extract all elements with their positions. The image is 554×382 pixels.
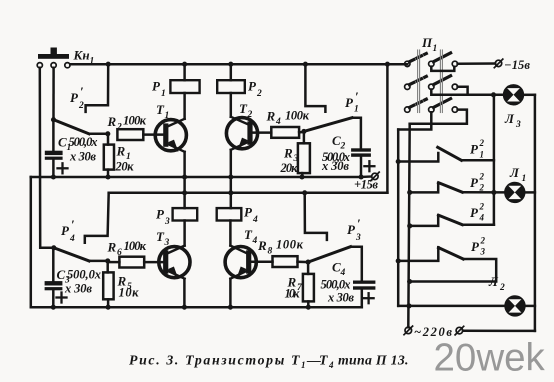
wire row1 elbow (431, 67, 454, 71)
wire right contact rail (493, 95, 496, 225)
wire from button terminal 1 down to P4' blade (40, 68, 54, 248)
label R6 (107, 239, 147, 258)
svg-text:500,0х: 500,0х (67, 268, 101, 282)
svg-text:Р: Р (471, 239, 480, 254)
resistor R5 (103, 272, 113, 299)
svg-text:8: 8 (268, 247, 273, 257)
svg-text:2: 2 (256, 89, 262, 99)
resistor R6 (119, 257, 144, 268)
lamp L2 (505, 296, 524, 315)
svg-text:х 30в: х 30в (327, 291, 354, 305)
node R4 R3 junction (301, 129, 306, 134)
svg-text:4: 4 (252, 236, 258, 246)
label P4 (244, 205, 258, 226)
resistor R7 (303, 274, 314, 302)
label P3' (347, 216, 361, 243)
svg-text:500,0х: 500,0х (321, 278, 351, 292)
label -15v (504, 58, 530, 72)
svg-text:х 30в: х 30в (69, 150, 96, 164)
svg-text:20к: 20к (115, 160, 135, 174)
label P3^2 (471, 236, 486, 257)
contact P3^2 (398, 247, 496, 281)
svg-text:Л: Л (509, 165, 520, 180)
wire V1 vertical (397, 130, 400, 306)
contact P3' fixed arm (305, 193, 327, 240)
switch P1 (selector) (405, 50, 458, 113)
svg-text:′: ′ (80, 84, 84, 99)
svg-text:100к: 100к (124, 239, 147, 253)
wire blade to base node (89, 260, 108, 263)
svg-text:R: R (257, 238, 267, 253)
svg-text:4: 4 (252, 215, 258, 225)
svg-text:1: 1 (301, 360, 306, 370)
wire left edge vertical (30, 177, 33, 307)
node base divider T1 (105, 131, 110, 136)
svg-text:100к: 100к (123, 114, 147, 128)
wire right rail vertical (534, 95, 537, 331)
contact P4' blade (54, 248, 89, 261)
svg-text:′: ′ (357, 216, 361, 231)
label T4 (244, 227, 258, 246)
svg-text:2: 2 (247, 110, 253, 120)
wire blade to C2 (352, 118, 361, 149)
terminal 220v right (456, 327, 463, 334)
label R8 (257, 238, 304, 257)
label P1 switch (421, 35, 437, 54)
svg-text:500,0х: 500,0х (69, 135, 98, 149)
contact P4' fixed arm (85, 193, 109, 243)
wire row2 elbow right (458, 87, 468, 95)
svg-text:Р: Р (248, 79, 257, 94)
svg-text:1: 1 (433, 44, 438, 54)
svg-text:20к: 20к (280, 161, 299, 175)
wire T2 base to R4 (252, 131, 271, 134)
terminal 220v left (405, 327, 412, 334)
transistor T1 (155, 119, 186, 152)
svg-text:Р: Р (156, 207, 165, 222)
svg-text:Р: Р (470, 175, 479, 190)
capacitor C2 (351, 148, 371, 156)
wire row2 elbow left (431, 90, 467, 95)
label T2 (239, 101, 253, 120)
contact P1^2 (398, 147, 494, 161)
capacitor C4 (353, 281, 375, 290)
svg-text:R: R (116, 144, 126, 159)
svg-text:100к: 100к (285, 109, 310, 123)
label ~220v (414, 325, 452, 339)
svg-text:′: ′ (71, 217, 75, 232)
label C4 plus (364, 293, 374, 303)
relay coil P3 (173, 208, 198, 220)
svg-text:3: 3 (355, 233, 361, 243)
terminal -15v (495, 60, 501, 66)
node R8 R7 junction (306, 260, 311, 265)
label P4' (61, 217, 75, 244)
label L1 (509, 165, 526, 184)
resistor R4 (271, 127, 299, 138)
node P4' blade pivot (51, 245, 56, 250)
row 3 contacts (405, 107, 410, 112)
svg-text:Р: Р (61, 223, 70, 238)
label +15v (354, 178, 378, 192)
svg-text:1: 1 (522, 174, 527, 184)
svg-text:10к: 10к (119, 286, 140, 300)
svg-text:2: 2 (479, 172, 485, 182)
contact P3' blade (308, 247, 350, 262)
node top rail junctions (106, 62, 390, 67)
svg-text:+15в: +15в (354, 178, 378, 192)
svg-text:Р: Р (345, 95, 354, 110)
wire from button terminal 2 down (52, 68, 55, 120)
label L3 (504, 111, 521, 130)
wire 220v bottom (463, 329, 535, 332)
svg-text:Р: Р (70, 90, 79, 105)
svg-text:—Т: —Т (306, 353, 328, 368)
svg-text:Р: Р (152, 79, 161, 94)
svg-text:−15в: −15в (504, 58, 530, 72)
resistor R1 (104, 145, 114, 170)
contact P2' fixed arm (86, 64, 109, 112)
svg-text:R: R (266, 109, 276, 124)
svg-text:1: 1 (354, 105, 359, 115)
relay coil P4 (217, 208, 242, 220)
label P1 (152, 79, 166, 100)
svg-text:2: 2 (499, 283, 505, 293)
transistor T3 (159, 246, 190, 280)
svg-text:2: 2 (479, 183, 485, 193)
label T3 (156, 229, 170, 248)
lamp L3 (504, 85, 523, 104)
svg-text:типа П 13.: типа П 13. (338, 353, 409, 368)
svg-text:3: 3 (164, 238, 170, 248)
svg-text:Р: Р (244, 205, 253, 220)
svg-text:2: 2 (116, 123, 122, 133)
svg-text:2: 2 (78, 101, 84, 111)
svg-text:3: 3 (515, 120, 521, 130)
svg-text:100к: 100к (276, 238, 304, 252)
row 1 contacts (405, 61, 410, 66)
terminal +15v (361, 175, 371, 178)
wire top rail to lower rail at right (386, 64, 389, 193)
svg-text:6: 6 (117, 248, 122, 258)
wire middle rail lower (109, 192, 388, 195)
label P1^2 (470, 138, 485, 160)
svg-text:Р: Р (470, 205, 479, 220)
svg-text:2: 2 (480, 236, 486, 246)
node V2 junctions (406, 190, 412, 309)
svg-text:′: ′ (355, 89, 359, 104)
wire bottom rail (31, 306, 362, 309)
node L3 junction (491, 92, 496, 97)
svg-text:4: 4 (479, 213, 485, 223)
transistor T2 (226, 117, 257, 150)
wire middle rail upper (31, 176, 361, 179)
svg-text:1: 1 (161, 89, 166, 99)
svg-text:R: R (107, 114, 117, 129)
row 2 contacts (405, 84, 410, 89)
label C4 value (321, 260, 355, 305)
contact P4^2 (410, 215, 494, 226)
svg-text:2: 2 (479, 202, 485, 212)
label C3 plus (57, 293, 67, 303)
label T1 (156, 102, 169, 121)
wire lamp L2 to right rail (524, 305, 535, 308)
linkage bars (418, 50, 443, 113)
svg-text:R: R (107, 240, 117, 255)
wire blade to C4 (351, 247, 362, 281)
label Kn1 (73, 48, 95, 67)
label P1' (345, 89, 359, 115)
label P2^2 (470, 172, 485, 193)
relay coil P1 (170, 80, 199, 93)
label P2' (70, 84, 84, 111)
svg-text:4: 4 (328, 360, 334, 370)
caption (129, 353, 409, 371)
label P2 (248, 79, 262, 100)
label P3 (156, 207, 170, 228)
wire row3 middle down and left (398, 112, 431, 129)
label C1 value (58, 135, 98, 164)
wire lamp L2 feed (398, 305, 505, 308)
wire top rail (70, 63, 407, 66)
svg-text:4: 4 (69, 234, 75, 244)
wire V2 vertical (408, 124, 409, 327)
contact P1' fixed arm (305, 64, 325, 112)
label R7 (285, 275, 304, 301)
svg-text:3: 3 (164, 217, 170, 227)
svg-text:П: П (421, 35, 433, 50)
label C3 value (57, 267, 102, 296)
label P4^2 (470, 202, 485, 223)
resistor R2 (117, 129, 143, 140)
svg-text:4: 4 (275, 117, 281, 127)
label R4 (266, 109, 310, 128)
svg-text:х 30в: х 30в (64, 282, 92, 296)
pushbutton Kn1 (37, 48, 70, 68)
lamp L1 (505, 183, 524, 202)
wire row3 right elbow (410, 110, 467, 124)
svg-text:Л: Л (504, 111, 515, 126)
node rail junctions (51, 174, 364, 179)
capacitor C3 (52, 248, 55, 281)
resistor R8 (273, 256, 298, 267)
label C2 plus (364, 161, 374, 171)
contact P2^2 (410, 183, 504, 193)
label R2 (107, 114, 147, 133)
label L2 (488, 274, 505, 293)
wire row1 to -15v (458, 62, 496, 65)
label R3 (280, 146, 299, 176)
node C1 top (51, 117, 56, 122)
relay coil P2 (217, 80, 245, 93)
transistor T4 (225, 246, 256, 280)
capacitor C1 (45, 151, 63, 160)
node V1 junctions (396, 159, 401, 264)
wire lamp L1 to right rail (523, 191, 535, 194)
label C2 value (321, 133, 350, 173)
svg-text:1: 1 (165, 111, 170, 121)
label R5 (117, 274, 140, 300)
label R1 (115, 144, 135, 174)
contact P2' blade (54, 120, 90, 134)
svg-text:R: R (283, 146, 293, 161)
svg-text:Р: Р (470, 142, 479, 157)
svg-text:3: 3 (480, 247, 486, 257)
wire node to C1 (52, 120, 55, 152)
resistor R3 (298, 143, 310, 173)
svg-text:4: 4 (340, 268, 346, 278)
wire lamp L3 to right rail (523, 94, 535, 97)
label C1 plus (58, 163, 68, 173)
svg-text:х 30в: х 30в (321, 159, 349, 173)
node base divider T3 (105, 258, 110, 263)
contact P1' blade (304, 118, 352, 132)
svg-text:Кн: Кн (73, 48, 90, 63)
svg-text:Рис. 3. Транзисторы Т: Рис. 3. Транзисторы Т (129, 353, 300, 368)
svg-text:Р: Р (347, 222, 356, 237)
wire T4 base to R8 (251, 261, 273, 264)
svg-text:20wek: 20wek (434, 337, 546, 380)
wire blade to base node (89, 133, 108, 136)
svg-text:2: 2 (479, 138, 485, 148)
svg-text:1: 1 (480, 150, 485, 160)
svg-text:Л: Л (488, 274, 499, 289)
wire lamp L3 feed (468, 94, 504, 97)
svg-text:10к: 10к (285, 287, 301, 301)
